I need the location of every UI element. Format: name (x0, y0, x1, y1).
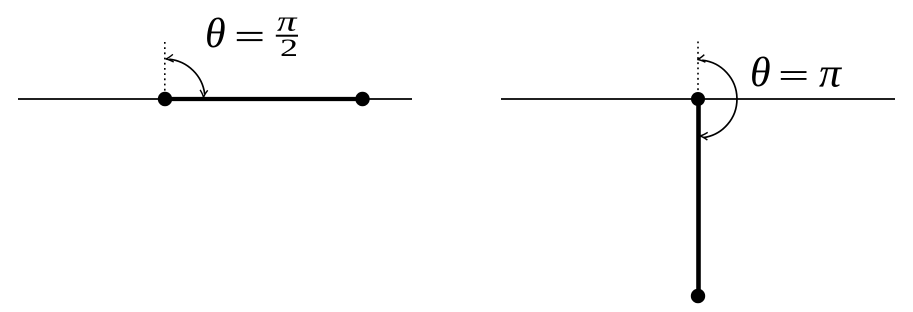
right figure: angle arc (702, 60, 737, 137)
right figure: arc arrowhead top (697, 55, 705, 63)
right figure: dotted reference line (697, 42, 699, 92)
right figure: pivot dot (691, 92, 705, 106)
left label equals bar 1 (237, 32, 263, 34)
right figure: bottom mass dot (691, 289, 705, 303)
left figure: rod at theta = pi/2 (165, 97, 362, 101)
svg-text:π: π (277, 6, 298, 38)
left figure: arc arrowhead top (166, 54, 174, 62)
svg-text:2: 2 (280, 35, 298, 62)
right figure: rod at theta = pi (696, 99, 701, 296)
left label fraction bar (276, 35, 298, 37)
right figure: arc arrowhead bottom (700, 132, 708, 140)
left figure: dotted reference line (164, 42, 166, 91)
left figure: ceiling line (18, 98, 412, 100)
svg-text:π: π (819, 50, 843, 96)
left figure: pivot dot (158, 92, 172, 106)
right label equals bar 1 (781, 71, 807, 73)
left figure: angle arc (169, 59, 205, 94)
right figure: ceiling line (501, 98, 895, 100)
left figure: arc arrowhead bottom (200, 90, 208, 98)
left label equals bar 2 (237, 39, 263, 41)
left figure: end mass dot (355, 92, 369, 106)
svg-text:θ: θ (750, 50, 771, 96)
svg-text:θ: θ (205, 11, 226, 57)
right label equals bar 2 (781, 78, 807, 80)
